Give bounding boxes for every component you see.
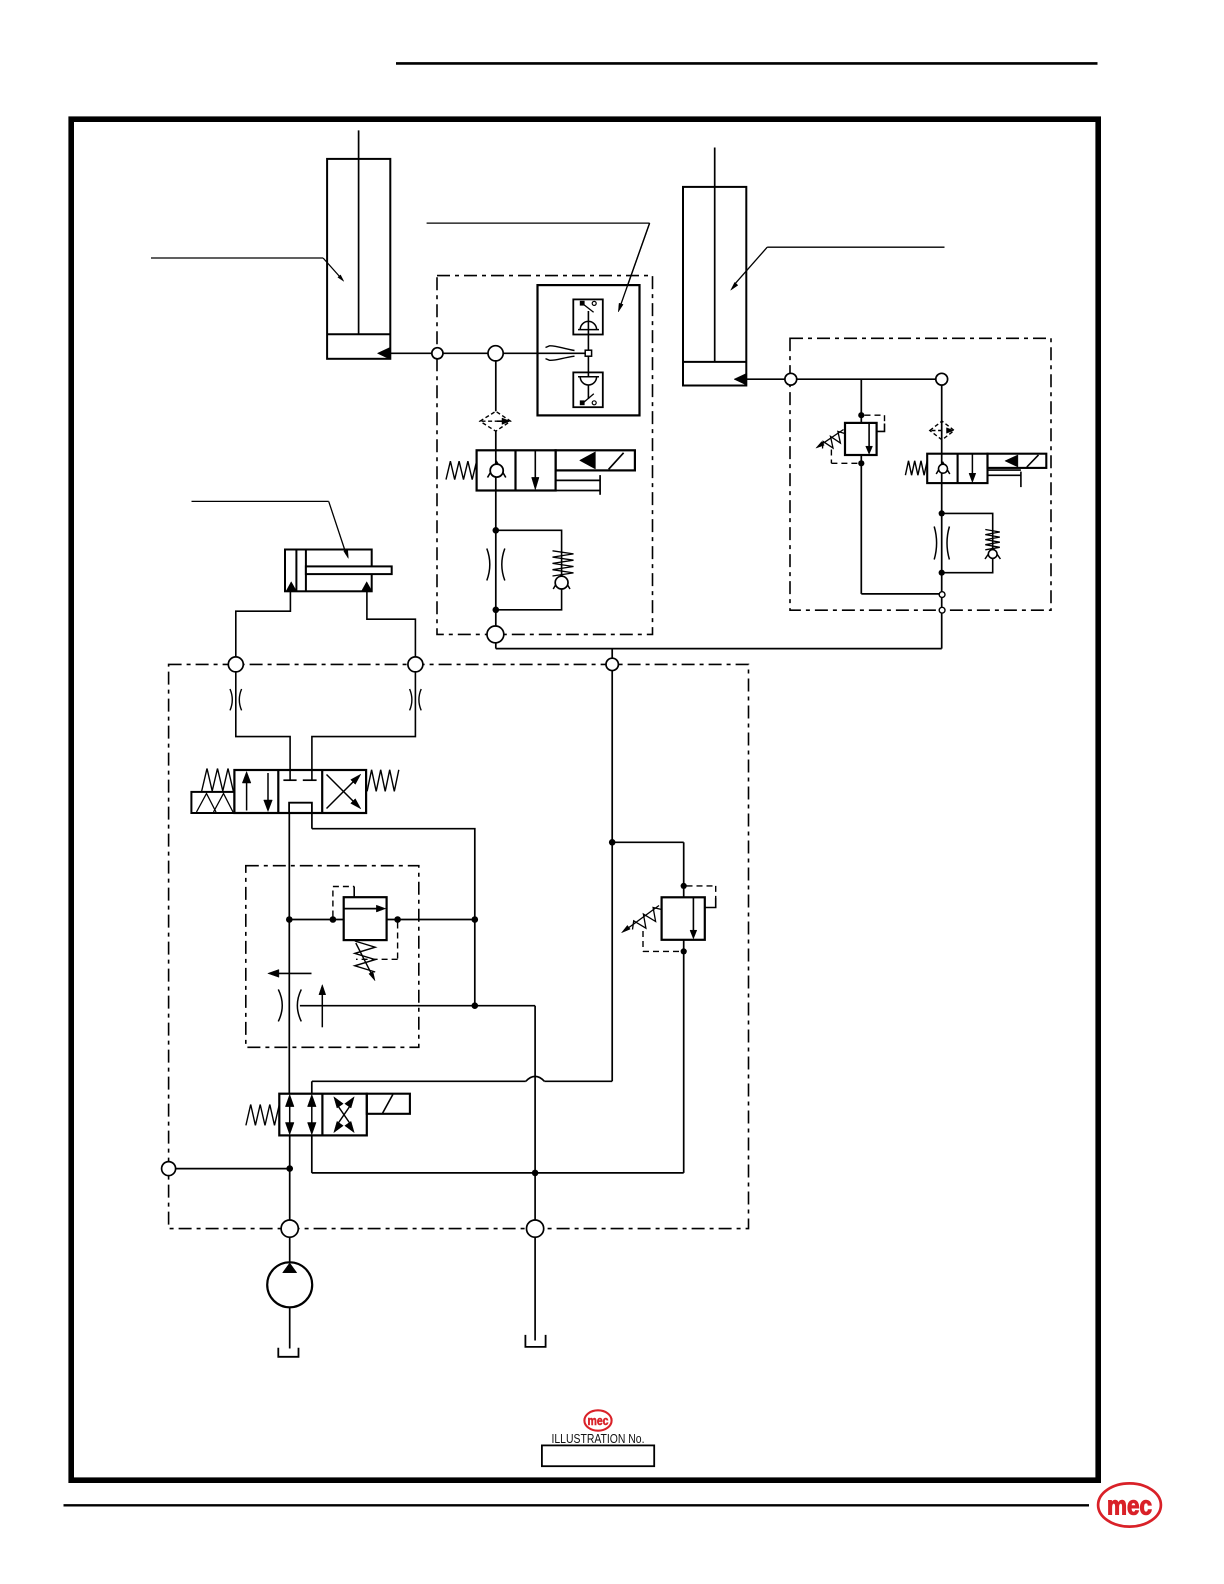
- svg-text:mec: mec: [588, 1413, 609, 1428]
- svg-text:ILLUSTRATION No.: ILLUSTRATION No.: [552, 1432, 645, 1446]
- svg-text:mec: mec: [1107, 1491, 1152, 1521]
